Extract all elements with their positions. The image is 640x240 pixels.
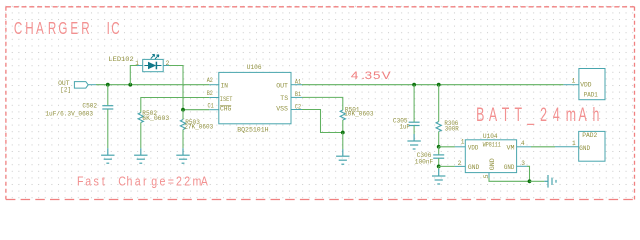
wire junction to ground: [342, 133, 344, 150]
wire C305 branch: [413, 85, 415, 122]
svg-text:6K_0603: 6K_0603: [142, 115, 169, 123]
capacitor C305: [409, 122, 420, 125]
ground under R503: [176, 148, 189, 163]
ground under C305: [407, 134, 420, 149]
svg-text:A2: A2: [207, 77, 213, 84]
svg-text:100nF: 100nF: [415, 158, 433, 166]
svg-text:WP8111: WP8111: [483, 142, 501, 150]
capacitor C502: [102, 106, 113, 109]
svg-text:1uF/6.3V_0603: 1uF/6.3V_0603: [45, 111, 93, 119]
resistor R501: [340, 110, 345, 120]
wire R502 lower: [140, 123, 142, 149]
ground under C502: [101, 148, 114, 163]
wire to U104 GND: [439, 165, 455, 167]
svg-text:VDD: VDD: [468, 145, 478, 153]
wire R503 lower: [182, 130, 184, 149]
wire LED cathode down to CHG: [169, 66, 183, 110]
wire junction to right ground: [530, 180, 545, 182]
wire CHG branch: [183, 109, 209, 111]
wire C305 lower: [413, 126, 415, 134]
junction C306/GND/U104 pin2: [438, 158, 440, 166]
svg-text:ISET: ISET: [220, 96, 233, 104]
svg-text:Fast Charge=22mA: Fast Charge=22mA: [77, 175, 208, 189]
resistor R306: [436, 122, 441, 132]
svg-text:LED102: LED102: [108, 56, 133, 64]
IC U104: [455, 140, 531, 178]
svg-text:C1: C1: [208, 103, 214, 110]
svg-text:4: 4: [521, 140, 525, 147]
svg-text:U104: U104: [483, 133, 498, 141]
resistor R503: [180, 120, 185, 130]
wire R501 lower: [342, 120, 344, 133]
svg-text:IN: IN: [221, 82, 228, 90]
junction at C305 tap: [412, 83, 416, 87]
port OUT tag symbol: [74, 82, 96, 89]
svg-text:27K_0603: 27K_0603: [184, 124, 213, 132]
svg-text:3: 3: [521, 160, 525, 167]
svg-text:PAD1: PAD1: [584, 91, 598, 99]
junction pin3/pin5/ground: [528, 179, 532, 183]
svg-text:GND: GND: [579, 145, 590, 153]
ground under C306: [432, 169, 445, 184]
svg-text:[2]: [2]: [60, 86, 71, 94]
wire C502 upper: [107, 85, 109, 106]
svg-text:BQ25101H: BQ25101H: [237, 127, 268, 135]
ground (rotated right): [544, 175, 556, 188]
wire C306 to ground: [438, 166, 440, 169]
junction LED/CHG/R503: [181, 108, 185, 112]
svg-text:TS: TS: [280, 95, 288, 103]
wire U104 pin5 to junction: [489, 178, 530, 182]
svg-text:GND: GND: [468, 164, 479, 172]
connector PAD2: [555, 131, 605, 161]
junction at C502 tap: [106, 83, 110, 87]
connector PAD1: [563, 69, 605, 100]
svg-text:U106: U106: [247, 64, 262, 72]
port OUT label: [58, 80, 71, 94]
wire U104 pin3 down: [527, 166, 530, 181]
wire VM to PAD2: [531, 146, 555, 148]
svg-text:1: 1: [572, 140, 576, 147]
wire VSS branch: [302, 110, 343, 133]
svg-text:C2: C2: [295, 104, 301, 111]
wire C502 lower: [107, 109, 109, 148]
ground under R502: [134, 148, 147, 163]
wire LED branch up: [130, 66, 137, 85]
svg-text:1: 1: [572, 78, 576, 85]
wire ISET branch: [141, 98, 209, 113]
capacitor C306: [433, 155, 444, 158]
sheet border: [6, 7, 635, 200]
svg-text:PAD2: PAD2: [582, 132, 597, 140]
svg-text:300R: 300R: [445, 126, 459, 134]
svg-text:OUT: OUT: [276, 82, 288, 90]
wire 4.35V rail: [302, 84, 563, 86]
resistor R502: [138, 113, 143, 123]
svg-text:4.35V: 4.35V: [351, 69, 392, 82]
wire TS branch: [302, 97, 343, 110]
svg-text:GND: GND: [489, 158, 497, 170]
svg-text:VSS: VSS: [276, 106, 288, 114]
junction R306/C306/U104 pin1: [437, 145, 441, 149]
svg-text:10K_0603: 10K_0603: [344, 111, 373, 119]
wire R306 upper: [438, 85, 440, 122]
svg-text:1: 1: [135, 60, 139, 67]
svg-text:VM: VM: [507, 145, 515, 153]
svg-text:GND: GND: [504, 164, 515, 172]
IC U106: [209, 72, 302, 123]
svg-text:B1: B1: [295, 91, 301, 98]
svg-text:VDD: VDD: [580, 82, 591, 90]
svg-text:B2: B2: [207, 90, 213, 97]
junction at R306 tap: [437, 83, 441, 87]
wire junction to C306: [438, 147, 440, 155]
svg-text:1uF: 1uF: [400, 123, 410, 131]
junction at LED tap: [128, 83, 132, 87]
svg-text:C502: C502: [82, 102, 97, 110]
wire to U104 VDD: [439, 146, 455, 148]
wire R306 lower: [438, 132, 440, 147]
wire junction to R503: [182, 110, 184, 120]
wire OUT rail (left): [96, 84, 209, 86]
svg-text:1: 1: [461, 138, 465, 145]
svg-text:CHG: CHG: [220, 106, 231, 114]
svg-text:2: 2: [458, 160, 462, 167]
junction TS/VSS/ground: [341, 131, 345, 135]
svg-text:A1: A1: [295, 78, 301, 85]
LED LED102: [137, 54, 169, 71]
ground under R501: [336, 149, 349, 164]
